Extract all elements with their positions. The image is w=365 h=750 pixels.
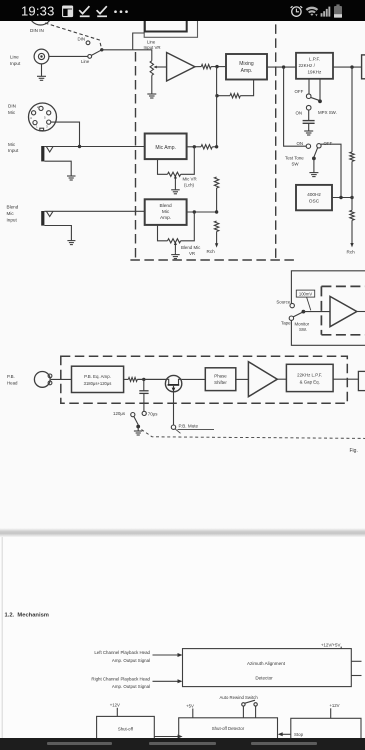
svg-text:DIN IN: DIN IN bbox=[30, 28, 44, 33]
svg-text:120μs: 120μs bbox=[113, 411, 126, 416]
box top outer (behind status bar) bbox=[144, 8, 197, 37]
ground (RCA jack) bbox=[41, 64, 43, 76]
svg-text:Input: Input bbox=[8, 148, 19, 153]
ground (MPX cap) bbox=[304, 130, 313, 132]
junction mic out bbox=[193, 145, 196, 148]
resistor (mixing input) bbox=[201, 64, 211, 68]
wire right bus bbox=[351, 67, 353, 152]
svg-text:Left Channel Playback Head: Left Channel Playback Head bbox=[94, 650, 150, 655]
wire Q1 base feed bbox=[137, 378, 165, 380]
resistor eq out bbox=[128, 377, 137, 381]
nav pill 2 bbox=[149, 742, 216, 745]
wire blend VR loop bbox=[158, 225, 168, 241]
svg-text:(Lch): (Lch) bbox=[184, 183, 195, 188]
playback head symbol bbox=[34, 372, 50, 388]
svg-text:Blend: Blend bbox=[7, 205, 19, 210]
svg-text:Mixing: Mixing bbox=[239, 61, 254, 67]
svg-text:Right Channel Playback Head: Right Channel Playback Head bbox=[91, 676, 150, 681]
junction dot switch common bbox=[100, 48, 103, 51]
contact OFF (MPX) bbox=[306, 94, 311, 99]
svg-text:Tape: Tape bbox=[281, 320, 291, 325]
switch arm eq select bbox=[134, 416, 138, 424]
svg-text:Mic: Mic bbox=[162, 209, 170, 215]
junction LPF out bbox=[350, 65, 353, 68]
module border REC left bbox=[135, 52, 137, 260]
wire right input arrow bbox=[153, 680, 179, 682]
svg-text:22KHz L.P.F.: 22KHz L.P.F. bbox=[297, 372, 322, 377]
module border REC bottom bbox=[130, 259, 297, 261]
potentiometer Mic VR (Lch) bbox=[168, 172, 181, 176]
wire pivot to ground bbox=[313, 158, 315, 172]
wire to mixing amp bbox=[211, 66, 226, 68]
status icon battery bbox=[334, 4, 342, 17]
wire blend sleeve bbox=[44, 226, 71, 241]
capacitor MPX bbox=[308, 110, 310, 120]
junction feedback bbox=[215, 94, 218, 97]
svg-text:& Gap Eq.: & Gap Eq. bbox=[300, 379, 320, 384]
filter L.P.F. 22KHz/19KHz box bbox=[296, 53, 333, 79]
wire source line (top) bbox=[291, 271, 365, 304]
box Shut-off Detector bbox=[179, 718, 278, 741]
svg-text:Rch: Rch bbox=[207, 249, 216, 254]
wire pot to ground bbox=[151, 75, 153, 94]
svg-text:SW.: SW. bbox=[299, 327, 307, 332]
box Shut-off bbox=[97, 716, 155, 740]
contact Source bbox=[290, 303, 294, 307]
switch arm line-select bbox=[91, 50, 101, 56]
svg-text:Blend Mic: Blend Mic bbox=[181, 245, 201, 250]
svg-text:Monitor: Monitor bbox=[295, 321, 310, 326]
junction eq switch pivot bbox=[136, 425, 140, 429]
svg-text:Head: Head bbox=[7, 381, 18, 386]
contact DIN bbox=[86, 41, 90, 45]
wire mixing bus vertical bbox=[216, 67, 218, 147]
wire switch to Line Input VR bbox=[102, 50, 152, 61]
amplifier Blend Mic Amp box bbox=[145, 199, 187, 225]
svg-text:100mV: 100mV bbox=[299, 292, 312, 297]
wire mic amp out bbox=[187, 146, 201, 148]
wire stop arrow bbox=[282, 733, 291, 735]
svg-text:Detector: Detector bbox=[255, 675, 273, 680]
svg-text:22KHz /: 22KHz / bbox=[299, 63, 316, 68]
contact Tape bbox=[289, 316, 293, 320]
svg-text:Shifter: Shifter bbox=[214, 380, 227, 385]
svg-text:Azimuth Alignment: Azimuth Alignment bbox=[247, 661, 286, 666]
wire LPF out right bbox=[333, 378, 358, 380]
wire head to eq amp bbox=[51, 378, 72, 380]
svg-text:Rch: Rch bbox=[347, 249, 356, 254]
status icon wifi bbox=[306, 7, 319, 17]
capacitor 70us bbox=[143, 379, 145, 390]
label box 100mV bbox=[296, 290, 314, 297]
svg-text:Test Tone: Test Tone bbox=[285, 155, 304, 160]
page edge line bbox=[1, 537, 3, 738]
svg-text:Mic VR: Mic VR bbox=[183, 177, 197, 182]
jack Mic Input bbox=[41, 146, 44, 161]
wire Q1 emitter to mute bbox=[173, 392, 175, 425]
svg-text:ON: ON bbox=[296, 111, 303, 116]
svg-text:Source: Source bbox=[276, 299, 290, 304]
contact ON (MPX) bbox=[306, 105, 311, 110]
ground (mic jack) bbox=[67, 175, 76, 177]
wire LPF-in to test tone ON bbox=[284, 67, 307, 146]
wire OSC out bbox=[332, 197, 352, 199]
status icon more dots bbox=[114, 10, 128, 13]
svg-text:Mic: Mic bbox=[7, 211, 15, 216]
svg-text:Input: Input bbox=[10, 61, 21, 66]
svg-text:Line: Line bbox=[10, 55, 19, 60]
contact ON (test tone) bbox=[306, 144, 310, 148]
svg-text:3180μs+120μs: 3180μs+120μs bbox=[84, 381, 112, 386]
jack Line Input (RCA) bbox=[34, 49, 49, 64]
svg-text:5: 5 bbox=[44, 116, 46, 120]
resistor mic bus vertical bbox=[214, 177, 218, 188]
wire monitor to line amp bbox=[303, 311, 330, 313]
nav pill 3 bbox=[251, 742, 317, 745]
svg-text:Input: Input bbox=[7, 218, 18, 223]
svg-text:Mic: Mic bbox=[8, 142, 16, 147]
status icon signal bars bbox=[321, 7, 331, 17]
junction test tone pivot bbox=[312, 157, 316, 161]
wire detector outputs bbox=[351, 660, 361, 662]
junction OSC out bbox=[339, 196, 342, 199]
wire Q1 out to phase shifter bbox=[182, 378, 206, 380]
box right edge (partial) bbox=[362, 55, 365, 79]
switch auto rewind bbox=[242, 703, 245, 706]
svg-text:P.B.: P.B. bbox=[7, 374, 15, 379]
svg-text:+12V: +12V bbox=[329, 703, 339, 708]
wire bus to Rch arrow bbox=[216, 232, 218, 244]
box right edge partial (PB out) bbox=[358, 371, 365, 390]
resistor right bus lower bbox=[350, 210, 354, 220]
junction mixing out bbox=[282, 65, 285, 68]
svg-text:P.B. Eq. Amp.: P.B. Eq. Amp. bbox=[84, 374, 111, 379]
ground (blend jack) bbox=[67, 240, 75, 242]
potentiometer Blend Mic VR bbox=[168, 239, 181, 243]
wire mic jack sleeve bbox=[44, 161, 71, 176]
svg-text:Auto Rewind Switch: Auto Rewind Switch bbox=[220, 695, 259, 700]
module border PB (dash-dot box) bbox=[61, 356, 348, 403]
wire LPF pin to OFF contact bbox=[308, 79, 310, 94]
svg-text:SW: SW bbox=[292, 162, 300, 167]
svg-text:Fig.: Fig. bbox=[350, 448, 358, 454]
resistor mic mix bbox=[201, 145, 212, 149]
contact 70us bbox=[142, 411, 146, 415]
potentiometer Line Input VR bbox=[150, 61, 153, 76]
wire LPF out bbox=[333, 66, 362, 68]
wire mic VR loop bbox=[158, 159, 168, 174]
detector Azimuth Alignment box bbox=[183, 649, 352, 687]
resistor right bus upper bbox=[350, 152, 354, 161]
svg-text:Amp. Output Signal: Amp. Output Signal bbox=[112, 658, 150, 663]
svg-text:DIN: DIN bbox=[78, 37, 86, 42]
wire mixing out to LPF bbox=[267, 66, 296, 68]
junction blend out bbox=[193, 210, 196, 213]
filter Phase Shifter box bbox=[205, 368, 236, 391]
junction monitor pivot bbox=[302, 310, 306, 314]
wire shut-off to detector arrow bbox=[154, 736, 178, 738]
svg-text:Amp.: Amp. bbox=[160, 215, 171, 221]
contact OFF (test tone) bbox=[317, 144, 321, 148]
svg-text:DIN: DIN bbox=[8, 104, 16, 109]
svg-text:Phase: Phase bbox=[214, 373, 227, 378]
svg-text:Stop: Stop bbox=[294, 732, 304, 737]
svg-text:1: 1 bbox=[36, 125, 38, 129]
ground (Line Input VR) bbox=[147, 93, 156, 95]
op-amp line amp triangle bbox=[330, 296, 357, 326]
ground (test tone) bbox=[309, 172, 318, 174]
wire opamp out bbox=[195, 66, 201, 68]
switch arm MPX bbox=[310, 97, 318, 100]
svg-text:Mic Amp.: Mic Amp. bbox=[155, 145, 176, 151]
nav pill 1 bbox=[47, 742, 112, 745]
svg-text:Line: Line bbox=[81, 59, 90, 64]
transistor Q1 (phase splitter driver) bbox=[165, 375, 181, 391]
op-amp PB amp triangle bbox=[248, 362, 277, 397]
svg-text:+12V/+5V: +12V/+5V bbox=[321, 642, 341, 647]
svg-text:Shut-off Detector: Shut-off Detector bbox=[212, 726, 245, 731]
svg-text:Mic: Mic bbox=[8, 110, 16, 115]
svg-text:Blend: Blend bbox=[159, 203, 172, 209]
ground (Mic VR) bbox=[171, 189, 180, 191]
svg-text:19:33: 19:33 bbox=[21, 4, 55, 19]
svg-text:+5V: +5V bbox=[186, 703, 194, 708]
ground (Blend VR) bbox=[174, 252, 176, 254]
svg-text:400Hz: 400Hz bbox=[307, 192, 321, 198]
svg-text:OSC: OSC bbox=[309, 199, 320, 205]
svg-text:Input VR: Input VR bbox=[144, 45, 161, 50]
svg-text:VR: VR bbox=[189, 251, 195, 256]
op-amp U1 (line amp) bbox=[167, 53, 195, 82]
junction DIN mic / jack bbox=[78, 145, 81, 148]
svg-text:Amp.: Amp. bbox=[241, 68, 253, 74]
amplifier P.B. Eq. Amp box bbox=[72, 366, 124, 392]
oscillator 400Hz OSC box bbox=[296, 185, 332, 210]
status icon download check 1 bbox=[79, 6, 89, 16]
wire left input arrow bbox=[153, 654, 179, 656]
wire feedback mixing bbox=[240, 80, 253, 96]
status icon alarm clock bbox=[291, 6, 303, 16]
resistor feedback mixing bbox=[230, 94, 240, 98]
amplifier Mic Amp box bbox=[145, 134, 187, 160]
svg-text:ON: ON bbox=[297, 141, 304, 146]
wire blend out bbox=[187, 211, 217, 213]
ground (eq switch) bbox=[137, 427, 139, 432]
module border REC right bbox=[275, 24, 277, 260]
svg-text:19KHz: 19KHz bbox=[308, 70, 322, 75]
module border line-amp dashed bbox=[320, 286, 322, 334]
svg-text:70μs: 70μs bbox=[148, 411, 158, 416]
contact P.B. Mute bbox=[171, 425, 175, 429]
connector DIN IN (hidden behind status bar) bbox=[29, 2, 52, 25]
connector DIN Mic bbox=[29, 103, 57, 131]
junction blend bus bbox=[215, 210, 218, 213]
wire mic jack to Mic Amp bbox=[44, 146, 144, 148]
svg-text:L.P.F.: L.P.F. bbox=[309, 57, 320, 62]
jack Blend Mic Input bbox=[41, 211, 44, 226]
wire LPF pin to MPX arm bbox=[319, 79, 321, 100]
amplifier Mixing Amp box bbox=[226, 54, 267, 80]
svg-text:OFF: OFF bbox=[295, 89, 304, 94]
status icon download check 2 bbox=[97, 6, 107, 16]
svg-text:MPX SW.: MPX SW. bbox=[318, 110, 337, 115]
wire blend jack to Blend Mic Amp bbox=[44, 210, 144, 212]
svg-text:P.B. Mute: P.B. Mute bbox=[179, 424, 199, 429]
contact 120us bbox=[131, 413, 135, 417]
wire OFF to oscillator out bbox=[321, 144, 341, 197]
resistor blend bus vertical bbox=[214, 221, 218, 232]
box solenoid (right) bbox=[291, 718, 361, 740]
wire DIN mic to mic line bbox=[51, 122, 80, 146]
wire RCA to Line contact bbox=[49, 55, 88, 57]
svg-text:3: 3 bbox=[46, 125, 48, 129]
junction mic bus bbox=[215, 145, 218, 148]
wire dashed mech linkage bbox=[142, 430, 365, 439]
filter 22KHz L.P.F. & Gap Eq. box bbox=[286, 364, 333, 391]
wire dashed from DIN connector to switch bbox=[45, 23, 101, 48]
wire from top box down to line-select net bbox=[133, 33, 145, 50]
wire tape line (bottom) bbox=[291, 320, 365, 345]
switch arm test tone bbox=[314, 148, 318, 157]
svg-text:Shut-off: Shut-off bbox=[118, 727, 134, 732]
status icon window bbox=[63, 6, 73, 17]
wire wiper to ground bbox=[174, 186, 176, 190]
wire line amp out bbox=[357, 311, 365, 313]
wire amp to LPF bbox=[277, 378, 286, 380]
svg-text:Amp. Output Signal: Amp. Output Signal bbox=[112, 684, 150, 689]
box top inner bbox=[145, 9, 187, 32]
junction eq cap bbox=[142, 378, 145, 381]
svg-text:4: 4 bbox=[30, 116, 32, 120]
junction node mixing input bbox=[215, 65, 218, 68]
svg-text:OFF: OFF bbox=[324, 141, 333, 146]
wire eq out bbox=[124, 378, 129, 380]
wire phase to amp bbox=[236, 378, 249, 380]
contact Line bbox=[88, 55, 92, 59]
svg-text:+12V: +12V bbox=[110, 703, 120, 708]
svg-text:1.2. Mechanism: 1.2. Mechanism bbox=[5, 613, 49, 619]
junction MPX pivot bbox=[318, 99, 322, 103]
switch arm monitor bbox=[293, 312, 303, 317]
